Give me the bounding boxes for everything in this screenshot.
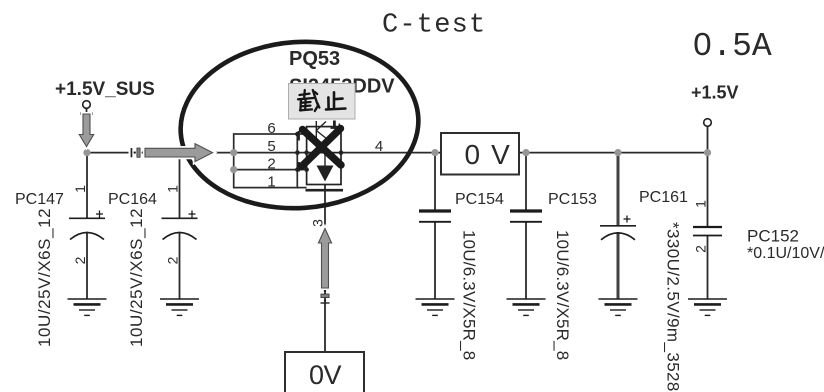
svg-text:2: 2 — [72, 256, 88, 264]
svg-text:1: 1 — [693, 200, 709, 208]
svg-text:1: 1 — [267, 174, 275, 191]
svg-text:*0.1U/10V/X5R: *0.1U/10V/X5R — [747, 245, 824, 262]
svg-text:C-test: C-test — [382, 11, 486, 41]
svg-text:10U/25V/X6S_12: 10U/25V/X6S_12 — [127, 208, 146, 347]
svg-text:PC153: PC153 — [548, 191, 597, 208]
svg-text:1: 1 — [72, 185, 88, 193]
svg-text:+1.5V_SUS: +1.5V_SUS — [55, 79, 155, 100]
svg-text:PC154: PC154 — [455, 191, 504, 208]
svg-text:PC161: PC161 — [639, 189, 688, 206]
svg-text:PC152: PC152 — [747, 227, 799, 246]
svg-text:2: 2 — [693, 245, 709, 253]
svg-text:PC164: PC164 — [108, 191, 157, 208]
svg-text:3: 3 — [310, 219, 326, 227]
svg-text:*330U/2.5V/9m_3528: *330U/2.5V/9m_3528 — [664, 222, 683, 392]
svg-text:10U/25V/X6S_12: 10U/25V/X6S_12 — [35, 208, 54, 347]
svg-text:PC147: PC147 — [15, 191, 64, 208]
svg-text:4: 4 — [375, 138, 383, 155]
svg-text:PQ53: PQ53 — [289, 48, 340, 70]
svg-text:10U/6.3V/X5R_8: 10U/6.3V/X5R_8 — [553, 230, 572, 360]
svg-text:5: 5 — [267, 138, 275, 155]
svg-text:0V: 0V — [465, 139, 521, 170]
svg-text:2: 2 — [165, 256, 181, 264]
svg-text:0V: 0V — [309, 360, 342, 390]
svg-text:10U/6.3V/X5R_8: 10U/6.3V/X5R_8 — [460, 230, 479, 360]
svg-text:2: 2 — [267, 156, 275, 173]
svg-text:+1.5V: +1.5V — [691, 83, 739, 103]
svg-text:1: 1 — [165, 185, 181, 193]
svg-text:6: 6 — [267, 120, 275, 137]
